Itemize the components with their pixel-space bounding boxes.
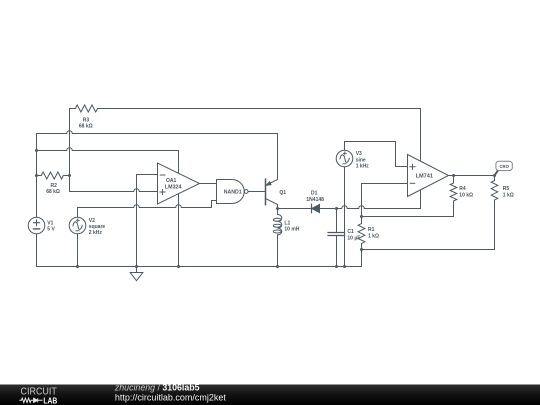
wire R1 bottom node to R5 bottom y=249.5: [362, 200, 495, 250]
svg-text:OA1: OA1: [166, 178, 177, 184]
svg-text:V2: V2: [89, 218, 95, 224]
svg-text:http://circuitlab.com/cmj2ket: http://circuitlab.com/cmj2ket: [115, 393, 227, 403]
wire R4 top lead: [453, 176, 455, 184]
resistor R5: [491, 181, 498, 201]
svg-text:LAB: LAB: [43, 395, 57, 405]
ground: [130, 267, 143, 281]
svg-text:68 kΩ: 68 kΩ: [46, 189, 60, 195]
wire OA1 minus input and ground drop x=136.5: [137, 175, 158, 267]
wire ground bus y=266.5: [37, 266, 362, 268]
inductor L1: [273, 209, 281, 235]
voltage source V2 square: [69, 217, 86, 234]
svg-text:LM324: LM324: [165, 185, 182, 191]
wire y=150.5 V1 rail to grounded vertical with hop over x=69.5: [37, 148, 179, 151]
svg-text:68 kΩ: 68 kΩ: [79, 124, 93, 130]
svg-text:10 kΩ: 10 kΩ: [459, 193, 473, 199]
resistor R4: [450, 183, 457, 201]
svg-text:R5: R5: [503, 186, 510, 192]
svg-text:LM741: LM741: [416, 174, 434, 180]
wire V1 rail vertical x=36.5: [36, 134, 38, 218]
svg-text:1 kΩ: 1 kΩ: [503, 193, 514, 199]
wire L1 bottom to ground bus: [277, 235, 279, 267]
wire vertical x=178.5 down to ground bus (passes under OA1): [178, 151, 180, 267]
wire NAND output to Q1 base: [248, 191, 265, 193]
svg-text:R4: R4: [459, 186, 466, 192]
op-amp OA1 LM324: [158, 163, 200, 204]
svg-text:zhucineng / 3106lab5: zhucineng / 3106lab5: [114, 383, 200, 393]
svg-text:R1: R1: [368, 227, 375, 233]
svg-text:R3: R3: [83, 118, 90, 124]
voltage source V3 sine: [336, 150, 353, 167]
svg-text:CRO: CRO: [500, 164, 510, 170]
wire y=133.5 V1 rail to Q1 emitter with hop over x=69.5: [37, 131, 278, 180]
voltage source V1: [28, 217, 45, 234]
wire vertical x=69.5 R3-left down to OA1 plus corner: [69, 109, 71, 192]
wire LM741 minus input to R1 top: [362, 184, 408, 217]
wire R1 bottom lead to ground bus corner: [361, 244, 363, 267]
svg-text:Q1: Q1: [279, 190, 286, 196]
wire V3 top loop to LM741 plus input: [345, 142, 408, 167]
svg-text:1 kΩ: 1 kΩ: [368, 234, 379, 240]
wire V2 top to NAND input B with hops over x=136.5 and x=178.5: [78, 201, 217, 218]
op-amp U2 LM741: [408, 155, 449, 197]
svg-text:2 kHz: 2 kHz: [89, 230, 103, 236]
transistor Q1: [266, 179, 278, 205]
svg-text:10 mH: 10 mH: [284, 227, 299, 233]
resistor R1: [358, 217, 365, 244]
resistor R3: [70, 105, 98, 112]
wire C1 bottom lead to ground bus: [336, 236, 338, 267]
resistor R2: [37, 172, 70, 179]
wire V3 bottom to ground bus: [344, 167, 346, 267]
svg-text:1N4148: 1N4148: [306, 197, 324, 203]
wire top feedback bus y=108.5 from R3 to x=420.5: [98, 108, 421, 110]
capacitor C1: [328, 233, 345, 236]
svg-text:10 µF: 10 µF: [347, 236, 360, 242]
svg-text:D1: D1: [311, 191, 318, 197]
logo resistor-diode glyph: [19, 398, 42, 402]
wire V1 bottom to ground bus: [36, 234, 38, 267]
svg-text:1 kHz: 1 kHz: [356, 163, 370, 169]
diode D1 1N4148: [312, 204, 320, 212]
footer bar: [0, 383, 540, 405]
wire R1 top node to R4 bottom y=216.5: [362, 201, 454, 217]
svg-text:C1: C1: [347, 229, 354, 235]
svg-text:5 V: 5 V: [47, 226, 55, 232]
scope flag CRO: [495, 161, 513, 175]
NAND gate NAND1: [217, 180, 249, 204]
wire V2 bottom to ground bus: [77, 234, 79, 267]
node junction dots: [35, 149, 496, 268]
wire R5 top lead: [494, 176, 496, 181]
svg-text:V1: V1: [47, 220, 53, 226]
wire LM741 output y=175.5: [449, 175, 495, 177]
svg-text:NAND1: NAND1: [224, 190, 242, 196]
svg-text:V3: V3: [356, 151, 362, 157]
wire C1 top lead: [336, 209, 338, 233]
wire Q1 collector to D1 then up under LM741 (hops over x=344.5 and x=361.5): [278, 109, 421, 209]
wire OA1 output to NAND input A: [200, 183, 217, 185]
wire OA1 plus input y=191.5 with hop over x=136.5: [70, 189, 158, 192]
